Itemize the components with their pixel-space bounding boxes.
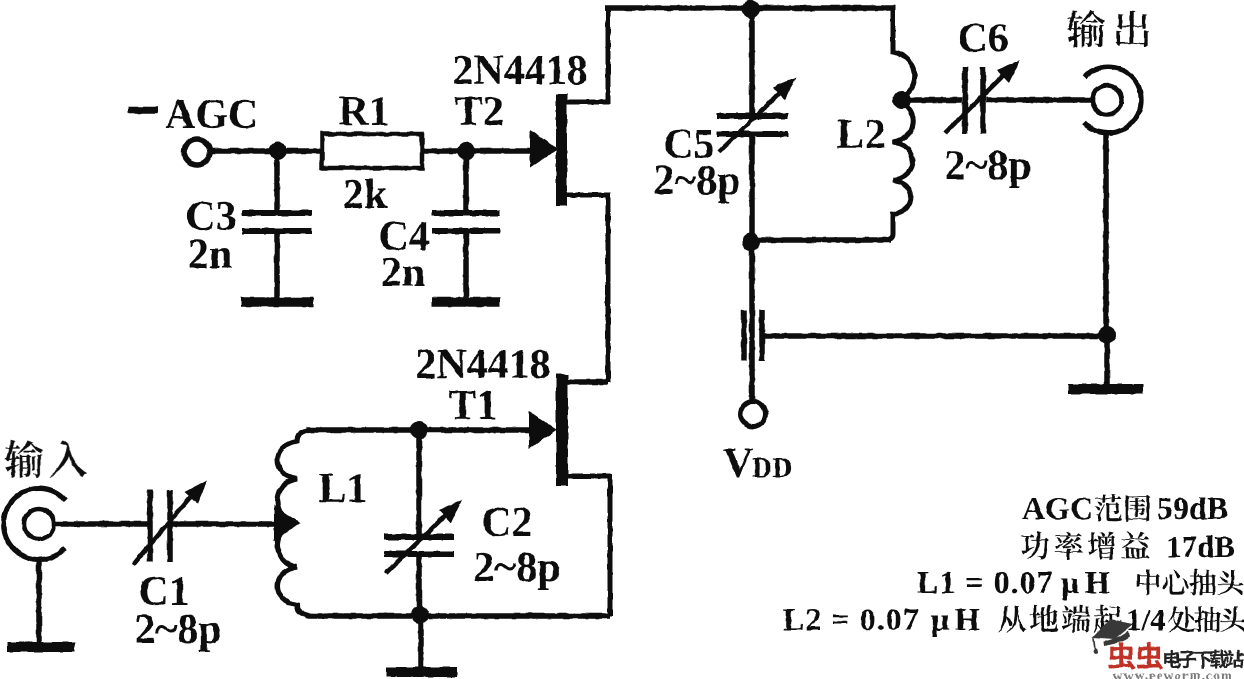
variable capacitor C2 (416, 432, 422, 535)
svg-text:1/4: 1/4 (1126, 602, 1166, 637)
svg-text:2~8p: 2~8p (653, 158, 740, 204)
wire C5 junction down to VDD (749, 242, 755, 402)
wire L2 tap to C6 (906, 97, 962, 103)
ground below C4 (432, 297, 500, 307)
svg-text:μ: μ (1061, 564, 1079, 600)
svg-text:2N4418: 2N4418 (452, 48, 587, 94)
transistor T1 channel bar (556, 374, 568, 486)
feedthrough capacitor plates (741, 310, 747, 361)
variable capacitor C1 (147, 490, 153, 562)
C5 arrow (719, 87, 786, 152)
svg-text:2n: 2n (188, 232, 232, 278)
svg-text:μ: μ (931, 601, 949, 637)
svg-text:C6: C6 (957, 16, 1008, 62)
wire input to C1 (53, 521, 148, 527)
svg-text:2~8p: 2~8p (134, 607, 221, 653)
capacitor C4 (463, 154, 469, 212)
wire L1 top / T1 gate (306, 427, 531, 433)
label 输出 (output) (1067, 10, 1149, 48)
variable capacitor C5 (749, 9, 755, 113)
capacitor C3 (274, 154, 280, 212)
svg-text:AGC: AGC (165, 92, 258, 138)
terminal VDD (741, 402, 766, 427)
node: L2 tap (893, 91, 911, 109)
svg-text:R1: R1 (338, 89, 389, 135)
svg-text:2~8p: 2~8p (473, 545, 560, 591)
inductor L2 (760, 8, 915, 240)
C2 arrow (386, 508, 453, 573)
T1 drain lead (566, 379, 608, 385)
transistor T2 channel bar (556, 94, 567, 206)
T2 source lead (to T1 drain) (565, 195, 608, 382)
wire feedthrough cap to right ground (762, 333, 1107, 339)
svg-text:L1: L1 (318, 466, 367, 512)
wire AGC terminal to R1 (210, 148, 324, 154)
svg-text:DD: DD (752, 453, 792, 484)
note line 2: power gain 17dB (1021, 531, 1150, 559)
svg-text:AGC: AGC (1022, 490, 1093, 526)
svg-text:59dB: 59dB (1157, 490, 1228, 526)
svg-text:www.eeworm.com: www.eeworm.com (1113, 668, 1233, 679)
svg-text:2~8p: 2~8p (944, 143, 1031, 189)
T2 drain lead (565, 8, 608, 102)
input connector (4, 488, 66, 559)
logo graduation cap (1092, 620, 1133, 640)
node: output/ground junction (1098, 326, 1116, 344)
logo 电子下载站 (1164, 650, 1244, 668)
node: tank bottom junction (411, 606, 429, 624)
svg-text:L1 = 0.07: L1 = 0.07 (917, 564, 1054, 600)
node: top rail junction (742, 0, 760, 18)
node: AGC/C3 junction (269, 142, 287, 160)
ground below C3 (241, 297, 314, 307)
inductor L1 (278, 430, 317, 616)
gate arrow of T1 (529, 411, 557, 449)
logo 虫虫 (red) (1108, 642, 1163, 669)
wire C1 to L1 with arrow (172, 521, 278, 527)
svg-text:2k: 2k (343, 172, 388, 218)
variable capacitor C6 (962, 67, 968, 134)
svg-text:H: H (955, 601, 980, 637)
node: L1 top / C2 junction (410, 421, 428, 439)
wire top supply rail (605, 5, 895, 11)
svg-text:C2: C2 (481, 500, 532, 546)
svg-text:H: H (1085, 564, 1110, 600)
svg-text:T2: T2 (454, 89, 503, 135)
svg-text:2N4418: 2N4418 (415, 342, 550, 388)
resistor R1 (322, 134, 422, 168)
ground (right) (1104, 335, 1110, 385)
wire R1 to T2 gate (422, 148, 533, 154)
label 输入 (input) (5, 440, 88, 478)
svg-text:17dB: 17dB (1166, 529, 1235, 564)
C6 arrow (945, 69, 1010, 133)
wire C5 junction to L2 bottom (751, 237, 891, 243)
svg-text:2n: 2n (381, 250, 425, 296)
gate arrow of T2 (530, 130, 558, 168)
terminal -AGC (184, 139, 210, 165)
node: C5 bottom junction (742, 233, 760, 251)
T1 source lead (566, 476, 610, 616)
svg-text:L2: L2 (836, 112, 885, 158)
svg-text:L2 = 0.07: L2 = 0.07 (783, 601, 920, 637)
svg-text:T1: T1 (448, 383, 497, 429)
label -AGC (128, 107, 158, 114)
output connector (1084, 67, 1141, 133)
node: R1/C4 junction (457, 142, 475, 160)
wire output connector down (1103, 133, 1109, 337)
ground below C2 (418, 616, 424, 669)
wire tank bottom (306, 613, 610, 619)
C1 arrow (133, 488, 198, 565)
ground below input (36, 558, 42, 644)
svg-text:V: V (723, 441, 753, 487)
